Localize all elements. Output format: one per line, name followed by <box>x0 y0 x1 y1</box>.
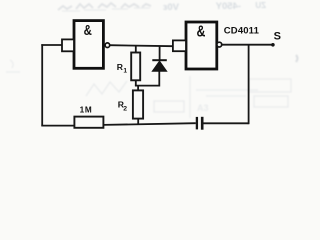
svg-text:1: 1 <box>123 68 127 75</box>
svg-text:1M: 1M <box>80 106 93 115</box>
nand gate U1b input box <box>173 40 186 51</box>
nand gate U1a output bubble <box>105 43 110 48</box>
svg-text:CD4011: CD4011 <box>224 25 260 36</box>
label R1 <box>117 62 128 75</box>
wire: gate 2 output to S <box>222 44 273 46</box>
wire: junction horizontal (R1/R2/diode node) <box>135 85 159 87</box>
wire: gate 1 output to gate 2 input <box>110 45 173 46</box>
resistor R2 body <box>133 90 143 118</box>
wire: R1 bottom stub <box>135 80 137 85</box>
resistor 1M body <box>74 117 103 128</box>
capacitor C plate left <box>196 117 198 129</box>
svg-text:2: 2 <box>123 106 127 113</box>
wire: bottom middle (1M to capacitor) <box>103 123 195 125</box>
wire: bottom-left horizontal to 1M <box>41 125 74 127</box>
wire: capacitor to right corner <box>204 122 249 124</box>
wire: left feedback vertical <box>41 44 43 125</box>
wire: right vertical (gate 2 output down) <box>248 45 250 125</box>
resistor R1 body <box>131 53 140 81</box>
label R2 <box>118 99 127 112</box>
wire: top-left horizontal to gate 1 input <box>41 44 62 46</box>
wire: R1 top stub <box>135 46 137 53</box>
svg-text:&: & <box>84 22 93 39</box>
faint print-through ghosts (decorative) <box>6 1 298 118</box>
svg-text:-450Y: -450Y <box>215 1 241 12</box>
nand gate U1b output bubble <box>217 42 222 47</box>
nand gate U1a body <box>74 21 103 69</box>
svg-text:V0ε: V0ε <box>162 2 179 13</box>
wire: R2 top stub <box>137 86 139 91</box>
svg-text:&: & <box>196 22 205 40</box>
wire: R2 bottom stub <box>137 119 139 125</box>
svg-text:ZU: ZU <box>255 1 266 10</box>
nand gate U1b body <box>186 22 217 69</box>
svg-text:A3: A3 <box>197 103 209 113</box>
capacitor C plate right <box>201 117 204 130</box>
diode D1 (triangle) <box>152 61 167 72</box>
diode D1 (cathode bar) <box>152 59 167 61</box>
wire: diode bottom stub <box>158 71 160 87</box>
svg-text:S: S <box>274 31 281 43</box>
nand gate U1a input box <box>62 39 74 51</box>
terminal S dot <box>271 43 275 47</box>
wire: diode top stub <box>159 46 161 60</box>
